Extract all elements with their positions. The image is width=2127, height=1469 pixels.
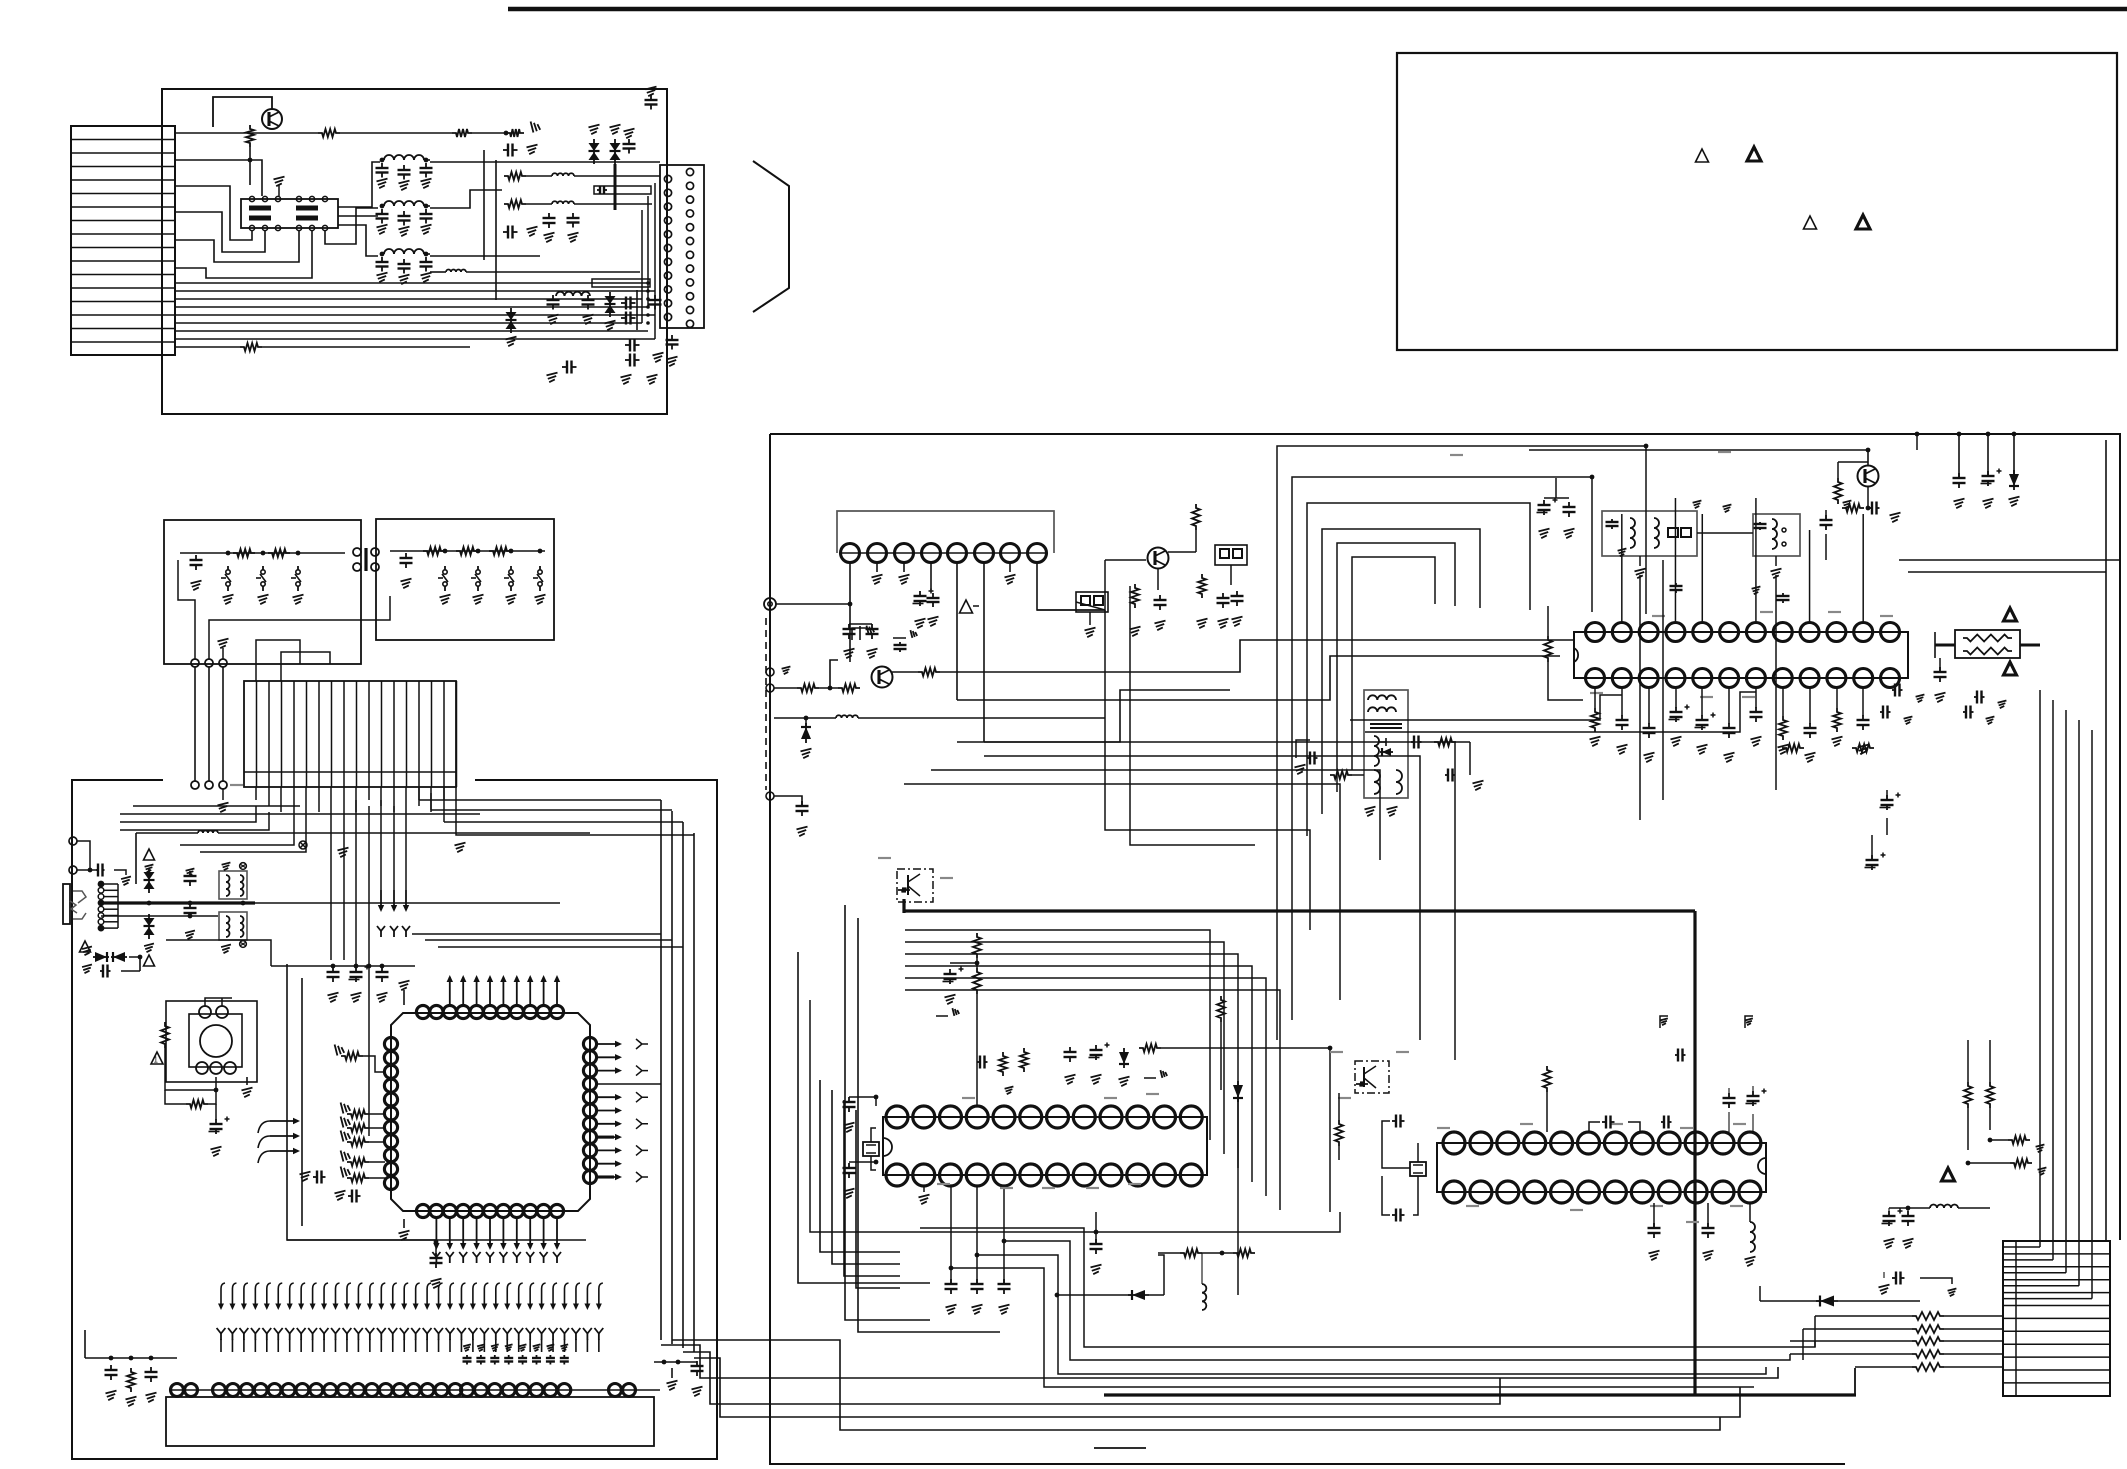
U1 pin left xyxy=(384,1065,397,1078)
input jack J11 xyxy=(766,668,774,676)
resistor below U4 pin0 xyxy=(1591,708,1599,732)
resistor R35 xyxy=(1434,738,1456,746)
ground bracket 2 xyxy=(893,637,906,639)
connector CN1 pin row divider xyxy=(71,314,175,316)
U1 pin top xyxy=(470,1005,483,1018)
wire xyxy=(77,841,90,870)
U1 pin bottom xyxy=(483,1204,496,1217)
capacitor C21 xyxy=(654,295,656,300)
switch S3 xyxy=(296,570,300,574)
capacitor C72 xyxy=(1963,711,1966,713)
capacitor C74 polarized xyxy=(1871,855,1873,860)
U5 pin top xyxy=(940,1106,962,1128)
connector CN1 pin row divider xyxy=(71,328,175,330)
wire xyxy=(1825,510,1827,520)
U4 pin top xyxy=(1746,623,1765,642)
connector CN2 pin right xyxy=(686,168,693,175)
ground xyxy=(647,375,658,385)
wire - CN10 upper feeds xyxy=(2039,690,2041,1247)
resistor R37 xyxy=(1834,478,1842,504)
capacitor C81 xyxy=(1095,1239,1097,1244)
wire xyxy=(1456,741,1470,743)
U4 pin top xyxy=(1612,623,1631,642)
ground xyxy=(1218,619,1229,629)
U5 pin top xyxy=(993,1106,1015,1128)
wire xyxy=(136,832,198,834)
capacitor C73 polarized xyxy=(1886,795,1888,800)
connector CN2 pin left xyxy=(664,217,671,224)
arrow - U1 bottom pin xyxy=(543,1219,545,1248)
connector CN2 pin right xyxy=(686,320,693,327)
U1 pin right xyxy=(583,1077,596,1090)
wire xyxy=(1915,432,1920,437)
wire xyxy=(1755,688,1757,708)
wire - U3 pin drops xyxy=(849,562,851,662)
U4 pin bottom xyxy=(1827,669,1846,688)
hook - U1 bottom pin xyxy=(489,1257,491,1263)
connector CN3 pin divider xyxy=(343,681,345,787)
connector CN2 pin left xyxy=(664,244,671,251)
ground xyxy=(1085,628,1096,638)
capacitor C36 polarized xyxy=(355,967,357,972)
RCA jack J10 xyxy=(764,598,776,610)
capacitor above U4 b xyxy=(1782,593,1784,596)
arrow - U1 right pin xyxy=(598,1136,620,1138)
U2 pin xyxy=(240,1384,253,1397)
resistor R20 xyxy=(161,1022,169,1048)
ground D3 xyxy=(506,337,517,347)
hatch C32 xyxy=(186,868,195,876)
wire xyxy=(1697,532,1753,534)
U3 pin xyxy=(975,544,994,563)
U2 pin xyxy=(352,1384,365,1397)
connector CN3 pin divider xyxy=(281,681,283,787)
zener diode D1 xyxy=(589,143,600,151)
ground after R4 xyxy=(531,122,541,133)
connector CN3 pin divider xyxy=(256,681,258,787)
T1 pin top xyxy=(296,196,301,201)
U1 pin left xyxy=(384,1079,397,1092)
resistor R22 xyxy=(341,1052,363,1060)
arrow - U1 bottom pin xyxy=(556,1219,558,1248)
arrow - U1 right pin xyxy=(598,1176,620,1178)
ground xyxy=(455,843,466,853)
wire xyxy=(1701,688,1703,716)
U1 pin top xyxy=(537,1005,550,1018)
phone jack contact pins xyxy=(98,881,105,888)
ground above T1 xyxy=(278,185,280,196)
U1 pin bottom xyxy=(524,1204,537,1217)
inductor L5 xyxy=(552,173,574,176)
T20 aux winding xyxy=(1374,770,1380,794)
inductor L6 xyxy=(552,201,574,204)
capacitor C31 xyxy=(405,553,407,558)
ceramic filter CF1 xyxy=(1076,592,1108,612)
U4 pin bottom xyxy=(1881,669,1900,688)
connector CN2 pin left xyxy=(664,203,671,210)
arrow - control lines xyxy=(258,1121,270,1133)
warning triangle 5 xyxy=(151,1052,163,1064)
zener diode D4 xyxy=(605,296,616,304)
arrow - U1 top pin xyxy=(476,977,478,1005)
U4 pin bottom xyxy=(1666,669,1685,688)
transistor Q11 xyxy=(1148,548,1169,569)
capacitor - U2 decoupling xyxy=(549,1355,551,1358)
ground xyxy=(844,1123,855,1133)
zener diode D10 xyxy=(144,872,155,880)
hook - U1 right xyxy=(636,1119,648,1129)
Q12 transistor xyxy=(907,875,909,895)
hook - U1 bottom pin xyxy=(435,1257,437,1263)
wire - U1 right to bus xyxy=(596,1083,661,1085)
ground xyxy=(1649,1251,1660,1261)
hook - U1 bottom pin xyxy=(543,1257,545,1263)
U4 pin bottom xyxy=(1773,669,1792,688)
Q14 transistor xyxy=(1363,1067,1365,1087)
wire xyxy=(1871,835,1873,860)
capacitor C38 xyxy=(313,1176,317,1178)
input jack J12 xyxy=(766,684,774,692)
ground S1 xyxy=(223,595,234,605)
capacitor C3c xyxy=(425,257,427,262)
U2 pin xyxy=(296,1384,309,1397)
LC filter bottom - inductor L7 xyxy=(556,292,590,296)
resistor R52 xyxy=(999,1052,1007,1076)
arrow - U1 right pin xyxy=(598,1110,620,1112)
U4 pin top xyxy=(1720,623,1739,642)
arrow - U1 bottom pin xyxy=(462,1219,464,1248)
warning triangle 9 (bold) xyxy=(1942,1168,1955,1181)
U4 pin bottom xyxy=(1746,669,1765,688)
hook - U1 right xyxy=(636,1039,648,1049)
hook - bus ends xyxy=(380,931,382,937)
resistor R1 xyxy=(246,125,254,147)
U6 pin bottom xyxy=(1658,1181,1680,1203)
wire - staircase xyxy=(1814,1316,1816,1347)
U1 pin right xyxy=(583,1091,596,1104)
ground xyxy=(1697,745,1708,755)
inner box around QFP xyxy=(287,964,586,1240)
wire - right edge drop xyxy=(2105,440,2107,1241)
arrow - U1 bottom pin xyxy=(529,1219,531,1248)
ground xyxy=(246,1077,248,1085)
ground - U3 xyxy=(876,562,878,572)
capacitor C61 xyxy=(1307,757,1310,759)
phone jack contacts xyxy=(73,891,86,903)
ground xyxy=(1365,807,1376,817)
ground S3 xyxy=(293,595,304,605)
T1 pin top xyxy=(322,196,327,201)
connector CN1 pin row divider xyxy=(71,139,175,141)
ground xyxy=(144,944,154,953)
wire xyxy=(1782,688,1784,716)
ground xyxy=(328,993,339,1003)
arrow - U1 top pin xyxy=(502,977,504,1005)
capacitor C85 polarized xyxy=(1675,1054,1678,1056)
ground xyxy=(560,1344,568,1351)
connector CN3 pin divider xyxy=(306,681,308,787)
wire xyxy=(166,940,271,966)
terminal mark 1 xyxy=(240,863,247,870)
resistor R6 xyxy=(504,200,526,208)
ground xyxy=(1858,745,1869,755)
resistor R27 xyxy=(347,1174,369,1182)
wire - T20 taps xyxy=(1378,738,1386,746)
T22 pins xyxy=(1782,528,1786,532)
ground xyxy=(533,1344,541,1351)
transformer T11 body xyxy=(219,912,247,940)
hook - U1 bottom pin xyxy=(556,1257,558,1263)
capacitor - U2 decoupling xyxy=(536,1355,538,1358)
ground xyxy=(671,1368,673,1378)
U2 pin xyxy=(544,1384,557,1397)
capacitor C64 polarized xyxy=(1986,432,1991,437)
wire - audio bold xyxy=(101,901,255,904)
connector jumper pins xyxy=(353,548,361,556)
connector CN2 pin right xyxy=(686,224,693,231)
warning triangle 4 (bold) xyxy=(1856,215,1870,229)
wire - bottom bus xyxy=(287,1239,436,1241)
arrow - U1 bottom pin xyxy=(449,1219,451,1248)
warning triangle small 3 xyxy=(80,941,91,952)
capacitor C69 xyxy=(1880,711,1883,713)
ground xyxy=(1564,529,1575,539)
U1 pin right xyxy=(583,1131,596,1144)
hook - U1 bottom pin xyxy=(449,1257,451,1263)
diode D20 xyxy=(805,723,807,743)
U4 pin bottom xyxy=(1800,669,1819,688)
U3 pin xyxy=(948,544,967,563)
arrow - bus down xyxy=(380,890,382,910)
ground xyxy=(1693,500,1702,508)
capacitor below U4 pin6 xyxy=(1755,707,1757,712)
U1 pin top xyxy=(497,1005,510,1018)
U1 pin left xyxy=(384,1176,397,1189)
switch S6 xyxy=(509,570,513,574)
connector CN2 pin right xyxy=(686,182,693,189)
wire xyxy=(1237,1098,1239,1295)
capacitor - U2 decoupling xyxy=(508,1355,510,1358)
capacitor C65 xyxy=(1825,515,1827,520)
arrow - U1 top pin xyxy=(489,977,491,1005)
U1 pin right xyxy=(583,1170,596,1183)
T1 pin bottom xyxy=(249,225,254,230)
U4 pin top xyxy=(1666,623,1685,642)
connector CN1 pin row divider xyxy=(71,287,175,289)
inductor L4 xyxy=(446,270,466,273)
wire xyxy=(774,796,802,806)
U5 pin bottom xyxy=(993,1164,1015,1186)
connector CN3 pin divider xyxy=(418,681,420,787)
U1 pin top xyxy=(443,1005,456,1018)
wire - row to R2 xyxy=(175,132,318,134)
connector CN3 pin divider xyxy=(443,681,445,787)
wire xyxy=(1760,1300,1820,1302)
wire xyxy=(1338,1093,1340,1120)
capacitor C68 xyxy=(1892,689,1895,691)
connector CN10 row divider xyxy=(2003,1369,2110,1371)
dash marks U4 xyxy=(1652,615,1665,617)
U5 pin top xyxy=(1020,1106,1042,1128)
switch box B outline xyxy=(376,519,554,640)
connector CN2 pin right xyxy=(686,210,693,217)
ground xyxy=(477,1344,485,1351)
transistor Q10 xyxy=(872,667,893,688)
U4 pin top xyxy=(1773,623,1792,642)
capacitor below U4 pin8 xyxy=(1809,723,1811,728)
capacitor C16 xyxy=(597,189,600,191)
ground C14 xyxy=(624,129,635,139)
ceramic filter CF2 xyxy=(1215,545,1247,565)
wire xyxy=(1653,1203,1655,1228)
capacitor C1c xyxy=(425,163,427,168)
diode D25 xyxy=(1128,1294,1149,1296)
capacitor C39 xyxy=(348,1195,352,1197)
hook - U1 bottom pin xyxy=(462,1257,464,1263)
U1 pin left xyxy=(384,1037,397,1050)
oscillator X1 can xyxy=(200,1025,232,1057)
shield box 2 xyxy=(592,279,650,287)
connector CN3 pin divider xyxy=(406,681,408,787)
U1 pin bottom xyxy=(537,1204,550,1217)
ground xyxy=(1005,1086,1014,1094)
wire - jumper verticals xyxy=(194,667,196,781)
T1 pin bottom xyxy=(262,225,267,230)
wire xyxy=(121,970,140,972)
ground xyxy=(341,1167,351,1178)
U5 pin top xyxy=(966,1106,988,1128)
dash xyxy=(1686,1221,1699,1223)
U4 pin bottom xyxy=(1639,669,1658,688)
transistor Q1 xyxy=(262,109,282,129)
U5 pin bottom xyxy=(1127,1164,1149,1186)
U5 pin bottom xyxy=(966,1164,988,1186)
arrow - U1 top pin xyxy=(543,977,545,1005)
U4 pin top xyxy=(1693,623,1712,642)
wire fan - curved arrows row xyxy=(221,1283,225,1308)
resistor R51 xyxy=(973,968,981,994)
ground xyxy=(782,666,791,674)
wire xyxy=(1095,1212,1097,1244)
U6 pin top xyxy=(1658,1132,1680,1154)
resistor R10 xyxy=(233,549,255,557)
ground xyxy=(82,965,92,974)
U2 pin xyxy=(379,1384,392,1397)
ground bracket xyxy=(936,1015,948,1017)
ground xyxy=(945,995,956,1005)
wire - CN3 fan-out xyxy=(255,787,257,800)
U4 pin top xyxy=(1800,623,1819,642)
wire xyxy=(165,1048,216,1090)
ground xyxy=(844,1189,855,1199)
U6 pin top xyxy=(1443,1132,1465,1154)
ground xyxy=(2038,1167,2047,1175)
IC T1 double transformer body xyxy=(241,199,338,228)
oscillator X1 bottom pins xyxy=(196,1062,208,1074)
U6 pin top xyxy=(1470,1132,1492,1154)
resistor R28 xyxy=(127,1368,135,1392)
resistor network box xyxy=(1955,630,2020,658)
ground xyxy=(1723,504,1732,512)
resistor R57 xyxy=(1233,1249,1255,1257)
capacitor C12 xyxy=(548,213,550,218)
IC U1 QFP body xyxy=(391,1013,590,1211)
resistor R59 xyxy=(1543,1066,1551,1092)
U6 pin top xyxy=(1604,1132,1626,1154)
U5 pin top xyxy=(1180,1106,1202,1128)
ground xyxy=(1703,1251,1714,1261)
U2 pin xyxy=(393,1384,406,1397)
resistor R30 xyxy=(797,684,819,692)
capacitor C53 xyxy=(932,593,934,598)
T21 filter squares xyxy=(1668,528,1678,537)
U2 pin xyxy=(226,1384,239,1397)
wire xyxy=(819,687,838,689)
U3 pin xyxy=(841,544,860,563)
resistor R63 xyxy=(2010,1159,2032,1167)
connector CN2 pin right xyxy=(686,293,693,300)
connector CN10 row divider xyxy=(2003,1343,2110,1345)
arrow - U1 right pin xyxy=(598,1096,620,1098)
wire xyxy=(1220,1022,1222,1090)
ground xyxy=(1948,1288,1957,1296)
ground xyxy=(1119,1077,1130,1087)
CN10 key column xyxy=(2015,1241,2017,1396)
wire - top rail right xyxy=(1917,434,2106,440)
capacitor C14 xyxy=(628,139,630,144)
wire xyxy=(774,687,797,689)
transformer T20 body xyxy=(1364,690,1408,798)
resistor R32 xyxy=(1131,584,1139,608)
wire - top border rule xyxy=(508,7,2127,12)
U2 pin xyxy=(310,1384,323,1397)
capacitor C58 xyxy=(1236,591,1238,596)
U1 pin right xyxy=(583,1157,596,1170)
wire bundle - long bottom xyxy=(661,1345,1778,1378)
ground bracket xyxy=(1660,1016,1668,1028)
resistor R21 xyxy=(186,1100,208,1108)
ground xyxy=(300,1172,311,1182)
zener diode D11 xyxy=(144,918,155,926)
wire xyxy=(472,132,506,134)
wire xyxy=(1161,1047,1330,1049)
capacitor C90 xyxy=(1707,1223,1709,1228)
capacitor C56 xyxy=(1159,595,1161,600)
ground xyxy=(1295,765,1306,775)
U5 pin bottom xyxy=(886,1164,908,1186)
capacitor - bus decoupling xyxy=(950,1279,952,1284)
U5 pin bottom xyxy=(1154,1164,1176,1186)
U2 pin xyxy=(449,1384,462,1397)
capacitor polarized below U4 pin4 xyxy=(1701,715,1703,720)
dash xyxy=(1437,1127,1450,1129)
ground xyxy=(1890,513,1901,523)
ground xyxy=(1935,693,1946,703)
ground C15 xyxy=(646,87,657,97)
U1 pin top xyxy=(550,1005,563,1018)
wire xyxy=(1594,688,1596,708)
T22 coil xyxy=(1772,519,1777,549)
ground xyxy=(519,1344,527,1351)
capacitor C92 xyxy=(1907,1211,1909,1216)
oscillator coil T21 body xyxy=(1602,511,1697,556)
wire xyxy=(1728,1088,1730,1098)
ground xyxy=(667,357,678,367)
diode D22 xyxy=(2012,432,2017,437)
zener diode D3 xyxy=(506,312,517,320)
U6 pin bottom xyxy=(1604,1181,1626,1203)
wire xyxy=(526,175,552,177)
